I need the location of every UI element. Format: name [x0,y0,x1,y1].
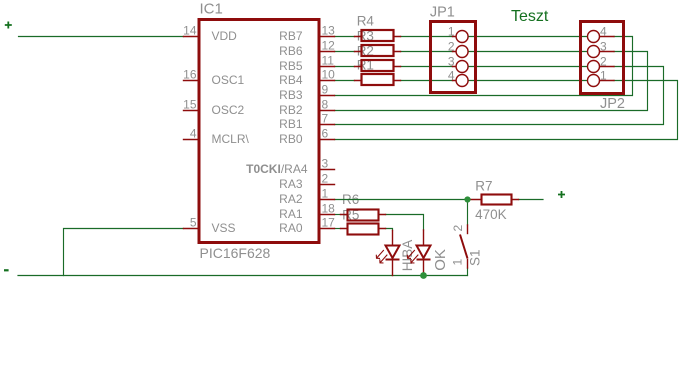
IC pin 4 stub [184,139,200,141]
svg-text:13: 13 [322,23,336,37]
IC pin 13 stub [319,36,335,38]
wire IC pin 18 RA1 to R6 [335,214,341,216]
svg-text:4: 4 [190,126,197,140]
IC IC1 PIC16F628 body [199,20,319,243]
IC pin 8 stub [319,110,335,112]
wire RB pin 10 to R1 [335,80,355,82]
svg-text:RB7: RB7 [279,29,303,43]
svg-text:VDD: VDD [212,29,238,43]
wire R6 to LED2 [386,215,424,231]
IC pin 6 stub [319,139,335,141]
IC pin 2 stub [319,184,335,186]
resistor R6 pin stubs [341,214,386,216]
svg-text:OK: OK [432,249,449,271]
resistor R5 pin stubs [341,228,386,230]
svg-text:5: 5 [190,215,197,229]
resistor R3 pin stubs [355,51,401,53]
IC pin 15 stub [184,110,200,112]
svg-text:Teszt: Teszt [511,8,549,25]
svg-text:RB3: RB3 [279,88,303,102]
+V supply symbol (left) [5,22,12,29]
svg-text:RA2: RA2 [279,192,303,206]
IC pin 9 stub [319,95,335,97]
svg-text:2: 2 [322,171,329,185]
junction node R7/S1 [464,196,470,202]
svg-text:RB6: RB6 [279,44,303,58]
svg-text:1: 1 [451,259,465,266]
IC pin 17 stub [319,228,335,230]
svg-text:11: 11 [322,53,335,67]
svg-text:RA1: RA1 [279,207,303,221]
svg-text:17: 17 [322,215,336,229]
svg-text:R7: R7 [475,179,492,194]
wire minus rail [18,275,468,277]
svg-text:IC1: IC1 [200,1,223,18]
svg-text:R4: R4 [357,14,375,29]
svg-text:3: 3 [448,55,455,69]
wire JP2 to IC pin 6 [335,81,678,140]
wire JP1 pin 2 to JP2 pin 3 [468,51,587,53]
LED1 cathode pin [392,261,394,276]
resistor R2 body [362,60,394,71]
svg-text:1: 1 [448,25,455,39]
wire IC pin 17 RA0 to R5 [335,228,341,230]
connector JP1 body [431,22,476,93]
JP2 pad 4 [588,31,600,43]
svg-text:3: 3 [322,156,329,170]
wire node to S1 pin 2 [467,200,469,226]
svg-text:RB1: RB1 [279,117,303,131]
svg-text:4: 4 [600,25,607,39]
svg-text:JP1: JP1 [430,5,455,21]
LED2 cathode bar [417,259,431,261]
LED2 anode pin [423,230,425,245]
svg-text:PIC16F628: PIC16F628 [200,245,271,261]
JP1 pad 3 [456,61,468,73]
wire JP2 to IC pin 7 [335,67,664,125]
svg-text:JP2: JP2 [600,96,625,112]
IC pin 1 stub [319,199,335,201]
svg-text:RA3: RA3 [279,177,303,191]
IC pin 11 stub [319,66,335,68]
IC pin 16 stub [184,80,200,82]
svg-text:2: 2 [448,40,455,54]
svg-text:T0CKI/RA4: T0CKI/RA4 [246,162,308,176]
svg-text:3: 3 [600,40,607,54]
LED2 triangle [417,246,431,259]
IC pin 7 stub [319,124,335,126]
svg-text:12: 12 [322,38,336,52]
wire R1 to JP1 [401,80,453,82]
svg-text:15: 15 [183,97,197,111]
svg-text:18: 18 [322,201,336,215]
wire RB pin 12 to R3 [335,51,355,53]
LED1 emission arrows [377,250,388,263]
IC pin 10 stub [319,80,335,82]
svg-text:14: 14 [183,23,197,37]
wire +V supply to IC pin 14 [19,36,184,38]
LED2 cathode pin [423,261,425,273]
junction node LED2/minus rail [420,272,427,279]
JP2 pad 2 [588,61,600,73]
S1 pin 1 stub [467,260,469,269]
wire JP1 pin 1 to JP2 pin 4 [468,36,587,38]
JP2 pin stubs [600,37,615,81]
LED2 emission arrows [408,250,419,263]
-V supply symbol [4,269,9,271]
svg-text:6: 6 [322,126,329,140]
LED1 anode pin [392,231,394,245]
svg-text:4: 4 [448,69,455,83]
svg-text:MCLR\: MCLR\ [212,132,250,146]
LED1 triangle [386,246,400,259]
svg-text:1: 1 [600,69,607,83]
svg-text:RB4: RB4 [279,73,303,87]
JP1 pad 2 [456,46,468,58]
svg-text:OSC1: OSC1 [212,73,245,87]
IC pin 3 stub [319,169,335,171]
wire R3 to JP1 [401,51,453,53]
svg-text:RA0: RA0 [279,221,303,235]
LED1 cathode bar [386,259,400,261]
svg-text:RB0: RB0 [279,132,303,146]
resistor R6 body [348,210,379,221]
wire R7 to +V supply [519,199,544,201]
svg-text:10: 10 [322,67,336,81]
wire JP1 pin 3 to JP2 pin 2 [468,66,587,68]
resistor R1 pin stubs [355,80,401,82]
svg-text:VSS: VSS [212,221,236,235]
wire JP2 to IC pin 9 [335,37,633,96]
wire IC pin 1 RA2 to node/R7 [335,199,468,201]
IC pin 5 stub [184,228,200,230]
JP1 pad 1 [456,31,468,43]
svg-text:9: 9 [322,82,329,96]
IC pin 18 stub [319,214,335,216]
wire R2 to JP1 [401,66,453,68]
JP1 pin stubs [453,37,457,81]
wire JP1 pin 4 to JP2 pin 1 [468,80,587,82]
svg-text:16: 16 [183,67,197,81]
svg-text:OSC2: OSC2 [212,103,245,117]
wire JP2 to IC pin 8 [335,52,648,111]
resistor R4 pin stubs [355,36,401,38]
resistor R4 body [362,30,394,41]
svg-text:2: 2 [451,225,465,232]
resistor R1 body [362,74,394,85]
svg-text:7: 7 [322,111,329,125]
connector JP2 body [581,22,624,94]
svg-text:8: 8 [322,97,329,111]
svg-text:RB5: RB5 [279,59,303,73]
svg-text:2: 2 [600,55,607,69]
wire RB pin 13 to R4 [335,36,355,38]
JP2 pad 3 [588,46,600,58]
resistor R2 pin stubs [355,66,401,68]
resistor R7 pin stubs [468,199,519,201]
wire RB pin 11 to R2 [335,66,355,68]
S1 pin 2 stub [467,225,469,234]
JP2 pad 1 [588,75,600,87]
svg-text:470K: 470K [475,207,507,222]
IC pin 14 stub [184,36,200,38]
+V supply symbol (right) [558,191,565,198]
switch S1 blade [460,235,468,259]
IC pin 12 stub [319,51,335,53]
wire IC pin 5 VSS to minus rail [64,229,184,276]
resistor R5 body [348,224,379,235]
svg-text:RB2: RB2 [279,103,303,117]
wire R4 to JP1 [401,36,453,38]
svg-text:1: 1 [322,186,329,200]
JP1 pad 4 [456,75,468,87]
resistor R3 body [362,45,394,56]
resistor R7 body [482,195,512,205]
wire S1 pin 1 to minus rail [467,268,469,276]
wire R5 to LED1 [386,229,393,231]
svg-text:S1: S1 [468,249,483,266]
